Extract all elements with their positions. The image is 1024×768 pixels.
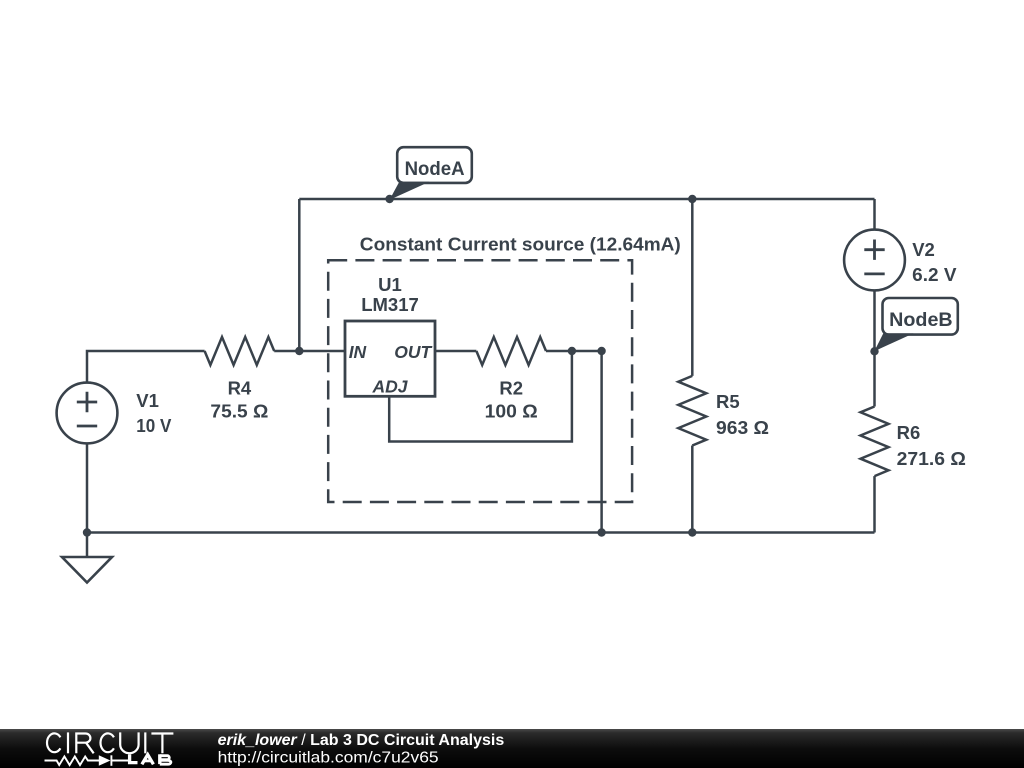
junction node output [597, 347, 605, 355]
svg-text:erik_lower / Lab 3 DC Circuit: erik_lower / Lab 3 DC Circuit Analysis [218, 732, 505, 749]
wire R4 right to node [274, 350, 299, 353]
wire V2 bottom lead to R6 [873, 290, 876, 406]
svg-text:V1: V1 [136, 390, 159, 411]
svg-text:271.6 Ω: 271.6 Ω [897, 448, 966, 469]
wire ground stem [86, 533, 89, 558]
svg-text:100 Ω: 100 Ω [485, 401, 538, 422]
wire R6 bottom lead [873, 476, 876, 532]
junction node R2-ADJ [568, 347, 576, 355]
wire bottom rail [87, 531, 875, 534]
svg-text:NodeA: NodeA [405, 158, 465, 180]
resistor R5 [678, 376, 706, 446]
svg-text:http://circuitlab.com/c7u2v65: http://circuitlab.com/c7u2v65 [218, 749, 439, 766]
wire R2 right segment [546, 350, 602, 353]
svg-text:U1: U1 [378, 274, 402, 295]
svg-text:LM317: LM317 [361, 294, 419, 315]
resistor R2 [476, 337, 546, 365]
svg-text:NodeB: NodeB [889, 309, 953, 331]
svg-text:R5: R5 [716, 391, 740, 412]
junction node R4-right [295, 347, 303, 355]
wire node to IN pin [299, 350, 345, 353]
logo LAB [130, 754, 171, 764]
svg-text:IN: IN [349, 342, 367, 362]
logo CIRCUIT letters [47, 732, 173, 753]
junction node NodeB attach [870, 347, 878, 355]
wire OUT pin to R2 [435, 350, 476, 353]
voltage source V2 [844, 230, 905, 291]
resistor R4 [205, 337, 275, 365]
ground [62, 557, 112, 583]
svg-text:963 Ω: 963 Ω [716, 417, 769, 438]
wire V1 top lead to R4 [87, 351, 205, 383]
node A callout [390, 147, 472, 200]
wire riser node to top rail [298, 199, 301, 351]
wire R5 top lead [691, 199, 694, 376]
svg-text:75.5 Ω: 75.5 Ω [210, 401, 268, 422]
op-amp box U1 LM317 [345, 321, 435, 396]
wire top rail [299, 198, 874, 201]
node B callout [874, 298, 958, 351]
svg-text:V2: V2 [912, 239, 935, 260]
voltage source V1 [57, 383, 118, 444]
footer bar [0, 729, 1024, 768]
wire output down to bottom rail [600, 351, 603, 533]
svg-text:R2: R2 [499, 377, 523, 398]
wire R5 bottom lead [691, 446, 694, 533]
wire V2 top lead [873, 199, 876, 230]
junction node bottom output [597, 528, 605, 536]
dashed enclosure [328, 260, 632, 502]
resistor R6 [861, 407, 889, 477]
svg-text:6.2 V: 6.2 V [912, 264, 957, 285]
svg-text:10 V: 10 V [136, 415, 172, 436]
wire V1 bottom lead [86, 444, 89, 533]
svg-text:OUT: OUT [394, 342, 432, 362]
junction node top rail R5 [688, 195, 696, 203]
svg-text:R4: R4 [228, 377, 252, 398]
svg-text:ADJ: ADJ [371, 377, 408, 397]
junction node NodeA attach [385, 195, 393, 203]
junction node bottom R5 [688, 528, 696, 536]
junction node ground [83, 528, 91, 536]
svg-text:R6: R6 [897, 422, 921, 443]
wire ADJ feedback loop [389, 351, 572, 442]
logo resistor-diode glyph [45, 755, 129, 766]
svg-text:Constant Current source (12.64: Constant Current source (12.64mA) [360, 234, 681, 254]
